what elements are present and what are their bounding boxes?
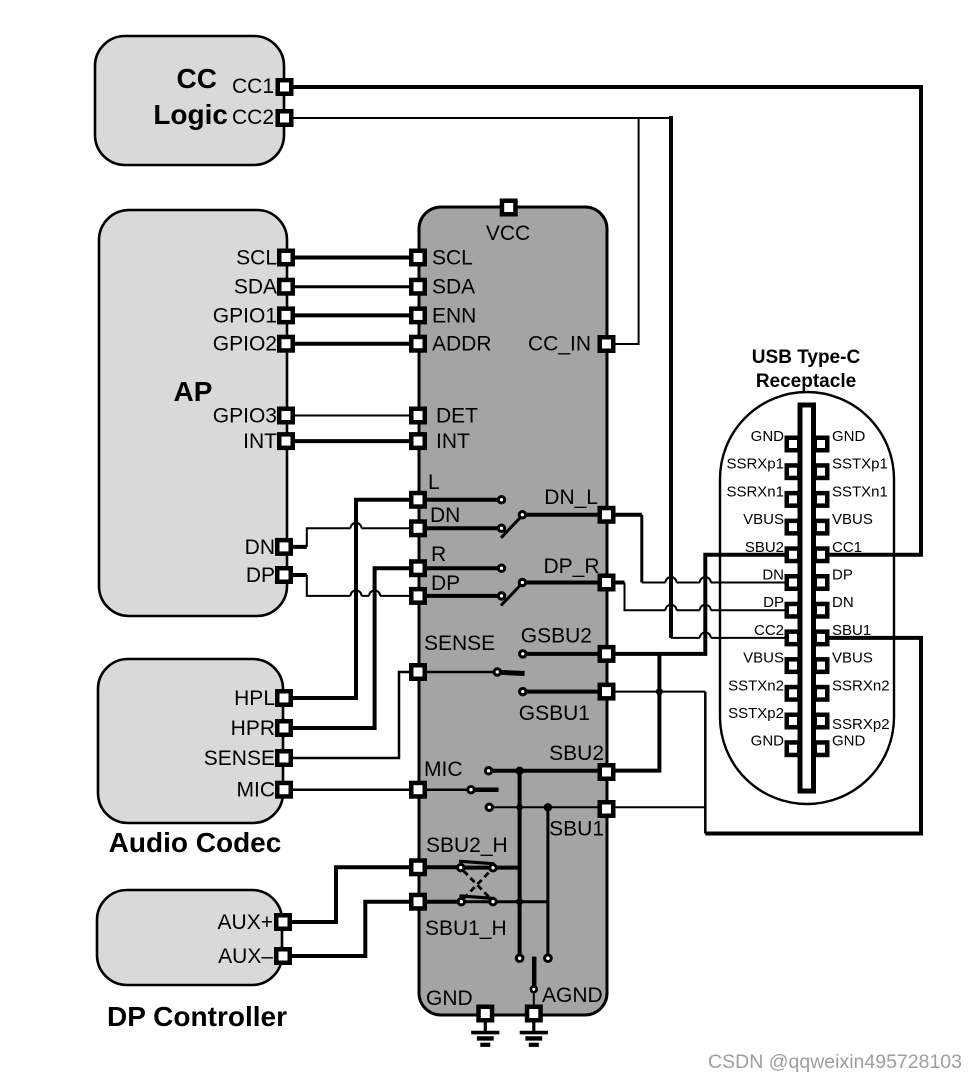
wire DP_R stub right bbox=[607, 581, 625, 585]
wire MIC codec to IC MIC switch pole bbox=[284, 788, 467, 791]
pin GPIO3 (AP) bbox=[279, 409, 293, 423]
JUNCTION DOTS bbox=[515, 688, 663, 905]
svg-text:GND: GND bbox=[426, 987, 473, 1010]
pin AUX- (DP Controller) bbox=[276, 949, 290, 963]
svg-text:SBU1: SBU1 bbox=[832, 622, 871, 639]
svg-text:SSTXn1: SSTXn1 bbox=[832, 483, 888, 500]
pin A10 SSTXn2 left bbox=[787, 687, 800, 700]
svg-text:MIC: MIC bbox=[424, 758, 463, 781]
svg-text:CC_IN: CC_IN bbox=[528, 333, 591, 356]
pole MIC bbox=[468, 787, 474, 793]
pin A8 CC2 left bbox=[787, 632, 800, 645]
junction GSBU1 row with SBU2 branch vertical bbox=[656, 688, 663, 695]
contact crossbar lower-right bbox=[490, 899, 496, 905]
svg-text:ADDR: ADDR bbox=[432, 333, 492, 356]
contact DN bbox=[498, 525, 504, 531]
pin GSBU1 (IC) bbox=[600, 685, 614, 699]
wire CC_IN from CC2 line down to CC_IN pin bbox=[607, 118, 639, 344]
pin MIC (IC) bbox=[411, 783, 425, 797]
svg-text:DET: DET bbox=[436, 405, 478, 428]
svg-text:DP: DP bbox=[832, 567, 853, 584]
junction SBU1 vertical start bbox=[544, 803, 552, 811]
svg-text:INT: INT bbox=[243, 430, 277, 453]
wire hop AP-DN over HPL vertical bbox=[351, 523, 362, 528]
pin DN (AP) bbox=[277, 540, 291, 554]
contact crossbar upper-left bbox=[458, 864, 464, 870]
svg-text:Logic: Logic bbox=[153, 99, 228, 130]
dashed cross link upper-left to lower-right bbox=[464, 871, 491, 899]
wire DN_L pole line bbox=[526, 513, 600, 517]
pin DP (AP) bbox=[277, 568, 291, 582]
wire SBU2 IC pin branch up to GSBU2 wire bbox=[607, 654, 659, 771]
wire GPIO2-ADDR bbox=[286, 342, 418, 346]
wire DN_L run to receptacle DN pin (hops at x=671, x=705.3) bbox=[642, 582, 793, 584]
svg-text:CC2: CC2 bbox=[232, 106, 274, 129]
IC U1 audio switch bbox=[419, 207, 607, 1015]
wire hop DP_R over CC2 vertical bbox=[666, 605, 677, 611]
wire CC2 row into receptacle CC2 pin (hop at x=705.3) bbox=[671, 637, 793, 639]
pin AUX+ (DP Controller) bbox=[276, 915, 290, 929]
pin DN_L (IC) bbox=[600, 508, 614, 522]
pin A11 SSTXp2 left bbox=[787, 715, 800, 728]
pin B10 SSRXn2 right bbox=[815, 687, 828, 700]
pin A3 SSRXn1 left bbox=[787, 493, 800, 506]
wire SBU1 vertical down to AGND contact bbox=[546, 807, 549, 954]
svg-text:DP: DP bbox=[431, 572, 460, 595]
svg-text:DN_L: DN_L bbox=[544, 486, 598, 509]
wire hop AP-DP over HPR vertical bbox=[369, 590, 380, 596]
pivot DP_R bbox=[519, 579, 525, 585]
pin SBU1_H (IC) bbox=[411, 895, 425, 909]
SWITCH CONTACT CIRCLES bbox=[458, 497, 552, 993]
svg-text:HPL: HPL bbox=[234, 687, 275, 710]
contact crossbar lower-left bbox=[458, 899, 464, 905]
svg-text:SSRXn2: SSRXn2 bbox=[832, 677, 890, 694]
svg-text:DP_R: DP_R bbox=[543, 555, 599, 578]
wire INT bbox=[286, 439, 418, 443]
wire SCL bbox=[286, 256, 418, 260]
svg-text:GPIO1: GPIO1 bbox=[213, 304, 277, 327]
block Audio Codec bbox=[98, 659, 283, 858]
wire DP_R pole line bbox=[526, 581, 600, 585]
wire DN_L stub right bbox=[607, 513, 642, 517]
pin SDA (AP) bbox=[279, 280, 293, 294]
svg-text:SDA: SDA bbox=[432, 276, 475, 299]
switch arm crossbar lower bbox=[460, 896, 495, 899]
switch arm crossbar upper bbox=[459, 861, 495, 864]
receptacle stadium outline bbox=[720, 392, 894, 804]
switch arm AGND bbox=[532, 957, 537, 987]
pin GND (IC bottom) bbox=[479, 1007, 493, 1021]
svg-text:DN: DN bbox=[245, 536, 275, 559]
pin DP (IC) bbox=[411, 589, 425, 603]
svg-text:DP Controller: DP Controller bbox=[107, 1001, 287, 1032]
switch arm DP_R to DP bbox=[501, 585, 521, 606]
wire GSBU1 internal stub to contact bbox=[527, 690, 601, 694]
svg-text:CSDN @qqweixin495728103: CSDN @qqweixin495728103 bbox=[708, 1051, 962, 1073]
pin DN (IC) bbox=[411, 522, 425, 536]
wire R stub to contact bbox=[426, 566, 498, 570]
svg-text:AGND: AGND bbox=[542, 984, 603, 1007]
pin VCC (IC top) bbox=[502, 201, 516, 215]
pole SENSE bbox=[494, 669, 500, 675]
pin SCL (AP) bbox=[279, 251, 293, 265]
wire hop CC2 over SBU2 vertical bbox=[700, 632, 711, 637]
switch arm SENSE bbox=[501, 672, 525, 673]
svg-text:MIC: MIC bbox=[237, 779, 276, 802]
svg-text:CC: CC bbox=[177, 63, 217, 94]
svg-text:SBU2: SBU2 bbox=[745, 539, 784, 556]
svg-text:GND: GND bbox=[751, 428, 785, 445]
pin A1 GND left bbox=[787, 438, 800, 451]
wire GPIO3-DET bbox=[286, 415, 418, 417]
dashed cross link lower-left to upper-right bbox=[464, 871, 491, 899]
svg-text:SBU2_H: SBU2_H bbox=[426, 834, 508, 857]
wire DP_R drop and run to receptacle DP pin (hops at x=671, x=705.3) bbox=[625, 583, 794, 611]
pin B2 SSTXp1 right bbox=[815, 465, 828, 478]
svg-text:SSRXn1: SSRXn1 bbox=[726, 483, 784, 500]
pin B1 GND right bbox=[815, 438, 828, 451]
wire GSBU2 internal stub to contact bbox=[527, 652, 601, 656]
pin SBU1 (IC) bbox=[600, 802, 614, 816]
pin CC2 (CC Logic) bbox=[278, 111, 292, 125]
wire AGND pole to AGND pin bbox=[533, 992, 535, 1013]
pin SBU2_H (IC) bbox=[411, 861, 425, 875]
pin L (IC) bbox=[411, 493, 425, 507]
wire crossbar upper right contact to SBU2 vertical bbox=[465, 866, 520, 870]
wire SBU2_H to crossbar left contact bbox=[418, 865, 458, 869]
svg-text:VBUS: VBUS bbox=[832, 650, 873, 667]
pin INT (AP) bbox=[279, 434, 293, 448]
wire SDA bbox=[286, 285, 418, 288]
wire MIC lower throw to SBU1 pin bbox=[493, 806, 607, 808]
pin B8 SBU1 right bbox=[815, 632, 828, 645]
pin SENSE (Audio Codec) bbox=[277, 751, 291, 765]
pin CC1 (CC Logic) bbox=[278, 80, 292, 94]
ground at GND pin bbox=[471, 1020, 499, 1045]
svg-text:DN: DN bbox=[430, 504, 460, 527]
junction SBU2 vertical crossing SBU1 row bbox=[516, 804, 523, 811]
switch arm MIC bbox=[475, 787, 499, 792]
pin DP_R (IC) bbox=[600, 576, 614, 590]
pivot DN_L bbox=[519, 512, 525, 518]
wire AP DN stub bbox=[286, 545, 307, 549]
svg-text:SSTXn2: SSTXn2 bbox=[728, 677, 784, 694]
contact GSBU2 bbox=[520, 651, 526, 657]
wire SBU1 vertical bbox=[704, 692, 707, 834]
svg-text:Audio Codec: Audio Codec bbox=[109, 827, 282, 858]
svg-text:GSBU1: GSBU1 bbox=[519, 702, 590, 725]
svg-text:DN: DN bbox=[832, 594, 854, 611]
svg-text:GPIO2: GPIO2 bbox=[213, 333, 277, 356]
svg-text:SBU2: SBU2 bbox=[549, 742, 604, 765]
contact MIC upper (SBU2) bbox=[485, 768, 491, 774]
svg-text:R: R bbox=[431, 543, 446, 566]
svg-text:CC1: CC1 bbox=[232, 75, 274, 98]
wire HPL to IC L pin bbox=[284, 500, 418, 698]
pin B4 VBUS right bbox=[815, 521, 828, 534]
wire DP stub to contact bbox=[426, 594, 498, 598]
wire SBU1_H to crossbar left contact bbox=[418, 900, 458, 904]
pole AGND bbox=[531, 986, 537, 992]
svg-text:L: L bbox=[428, 471, 440, 494]
svg-text:INT: INT bbox=[436, 430, 470, 453]
IC INTERNAL SWITCHES bbox=[418, 500, 607, 1014]
svg-text:HPR: HPR bbox=[231, 717, 275, 740]
wire AUX- to SBU1_H bbox=[283, 902, 418, 956]
pin B7 DN right bbox=[815, 604, 828, 617]
wire SENSE stub to pole bbox=[426, 671, 494, 674]
svg-text:SSRXp2: SSRXp2 bbox=[832, 716, 890, 733]
wire hop DN_L over SBU2 vertical bbox=[700, 577, 711, 582]
svg-text:ENN: ENN bbox=[432, 304, 476, 327]
wire hop AP-DP over HPL vertical bbox=[351, 590, 362, 595]
svg-text:DP: DP bbox=[763, 594, 784, 611]
contact AGND left (SBU2) bbox=[516, 955, 523, 962]
pin SDA (IC) bbox=[411, 280, 425, 294]
wire AUX+ to SBU2_H bbox=[283, 867, 418, 922]
svg-text:GND: GND bbox=[751, 733, 785, 750]
pin GSBU2 (IC) bbox=[600, 647, 614, 661]
pin B9 VBUS right bbox=[815, 659, 828, 672]
junction SBU2 net at MIC upper throw bbox=[515, 767, 523, 775]
wire HPR to IC R pin bbox=[284, 568, 418, 728]
wire MIC upper throw to SBU2 pin bbox=[492, 769, 607, 773]
svg-text:SBU1: SBU1 bbox=[549, 818, 604, 841]
pin CC_IN (IC) bbox=[600, 337, 614, 351]
wire GSBU2 to receptacle SBU2 pin bbox=[607, 555, 793, 654]
pin HPL (Audio Codec) bbox=[277, 691, 291, 705]
wire SENSE codec to IC SENSE pin bbox=[284, 672, 418, 758]
receptacle connector blade bbox=[800, 405, 814, 791]
wire AP DP stub bbox=[286, 573, 307, 577]
pin DET (IC) bbox=[411, 409, 425, 423]
svg-text:SCL: SCL bbox=[432, 247, 473, 270]
wire AP DP riser and run to IC DP pin (hops at x=356, x=374.6) bbox=[307, 575, 418, 596]
pin A5 SBU2 left bbox=[787, 549, 800, 562]
svg-text:SENSE: SENSE bbox=[424, 632, 495, 655]
pin MIC (Audio Codec) bbox=[277, 783, 291, 797]
svg-text:VBUS: VBUS bbox=[832, 511, 873, 528]
wire DN_L drop bbox=[640, 515, 643, 583]
pin SENSE (IC) bbox=[411, 665, 425, 679]
wire hop DN_L over CC2 vertical bbox=[666, 577, 677, 583]
pin SCL (IC) bbox=[411, 251, 425, 265]
contact DP bbox=[498, 593, 504, 599]
wire CC1 net: CC Logic CC1 to receptacle CC1 bbox=[285, 87, 922, 555]
switch arm DN_L to DN bbox=[501, 517, 521, 538]
wire GSBU1 to vertical bbox=[607, 691, 705, 693]
RECEPTACLE LABELS bbox=[726, 428, 889, 750]
svg-text:Receptacle: Receptacle bbox=[756, 371, 856, 392]
pin B3 SSTXn1 right bbox=[815, 493, 828, 506]
pin HPR (Audio Codec) bbox=[277, 721, 291, 735]
svg-text:AUX+: AUX+ bbox=[218, 911, 273, 934]
svg-text:GPIO3: GPIO3 bbox=[213, 405, 277, 428]
wire SBU1 IC pin stub bbox=[607, 806, 705, 808]
pin A2 SSRXp1 left bbox=[787, 465, 800, 478]
junction SBU2 vertical at crossbar lower row bbox=[516, 898, 523, 905]
pin R (IC) bbox=[411, 561, 425, 575]
svg-text:DN: DN bbox=[762, 567, 784, 584]
pin B12 GND right bbox=[815, 742, 828, 755]
svg-text:CC2: CC2 bbox=[754, 622, 784, 639]
wire SBU2 vertical down to AGND contact bbox=[518, 771, 522, 955]
pin ENN (IC) bbox=[411, 309, 425, 323]
pin A6 DN left bbox=[787, 576, 800, 589]
pin GPIO2 (AP) bbox=[279, 337, 293, 351]
pin A12 GND left bbox=[787, 742, 800, 755]
svg-text:SENSE: SENSE bbox=[204, 747, 275, 770]
wire GPIO1-ENN bbox=[286, 313, 418, 317]
svg-text:SBU1_H: SBU1_H bbox=[425, 917, 507, 940]
RECEPTACLE PINS bbox=[787, 438, 828, 755]
svg-text:GND: GND bbox=[832, 733, 866, 750]
contact crossbar upper-right bbox=[490, 865, 496, 871]
svg-text:SSTXp1: SSTXp1 bbox=[832, 456, 888, 473]
svg-text:GSBU2: GSBU2 bbox=[521, 625, 592, 648]
svg-text:VCC: VCC bbox=[486, 222, 530, 245]
USB TYPE-C RECEPTACLE bbox=[720, 347, 894, 804]
block AP bbox=[99, 210, 287, 616]
pin INT (IC) bbox=[411, 434, 425, 448]
wire L stub to contact bbox=[426, 498, 498, 502]
contact GSBU1 bbox=[520, 688, 526, 694]
pin B5 CC1 right bbox=[815, 549, 828, 562]
svg-text:USB Type-C: USB Type-C bbox=[752, 347, 861, 368]
svg-text:SDA: SDA bbox=[234, 276, 277, 299]
svg-text:AP: AP bbox=[174, 376, 213, 407]
block DP Controller bbox=[97, 890, 287, 1032]
pin ADDR (IC) bbox=[411, 337, 425, 351]
contact R bbox=[498, 565, 504, 571]
contact AGND right (SBU1) bbox=[545, 955, 552, 962]
svg-text:CC1: CC1 bbox=[832, 539, 862, 556]
svg-text:VBUS: VBUS bbox=[743, 650, 784, 667]
wire AP DN riser and run to IC DN pin (hop at x=356) bbox=[307, 528, 418, 547]
pin B11 SSRXp2 right bbox=[815, 715, 828, 728]
svg-text:SCL: SCL bbox=[236, 247, 277, 270]
ground at AGND pin bbox=[520, 1020, 548, 1045]
svg-text:VBUS: VBUS bbox=[743, 511, 784, 528]
wire hop DP_R over SBU2 vertical bbox=[700, 605, 711, 610]
pin A9 VBUS left bbox=[787, 659, 800, 672]
pin A4 VBUS left bbox=[787, 521, 800, 534]
pin A7 DP left bbox=[787, 604, 800, 617]
svg-text:SSRXp1: SSRXp1 bbox=[726, 456, 784, 473]
wire DN stub to contact bbox=[426, 526, 498, 530]
svg-text:SSTXp2: SSTXp2 bbox=[728, 705, 784, 722]
block CC Logic bbox=[95, 36, 284, 165]
pin B6 DP right bbox=[815, 576, 828, 589]
PIN SQUARES bbox=[276, 80, 613, 1020]
wire crossbar lower right contact to SBU1 vertical bbox=[465, 900, 548, 903]
wire CC2 horizontal from CC Logic CC2 bbox=[285, 117, 672, 119]
svg-text:AUX–: AUX– bbox=[218, 945, 273, 968]
pin GPIO1 (AP) bbox=[279, 309, 293, 323]
wire CC2 vertical down to receptacle CC2 row bbox=[669, 116, 673, 638]
svg-text:DP: DP bbox=[246, 564, 275, 587]
svg-text:GND: GND bbox=[832, 428, 866, 445]
wire SBU1 bottom loop to receptacle SBU1 pin bbox=[705, 638, 921, 834]
pin SBU2 (IC) bbox=[600, 765, 614, 779]
GROUND SYMBOLS bbox=[471, 1020, 548, 1045]
contact MIC lower (SBU1) bbox=[486, 804, 492, 810]
pin AGND (IC bottom) bbox=[527, 1007, 541, 1021]
contact L bbox=[498, 497, 504, 503]
